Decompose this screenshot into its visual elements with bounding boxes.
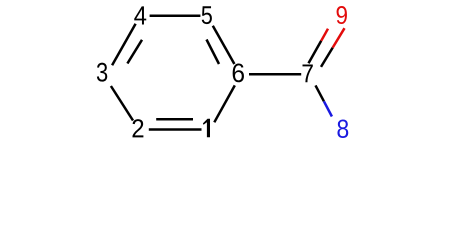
- atom label C2: [133, 119, 144, 137]
- atom label C3: [97, 63, 107, 82]
- bond C1=C2 main line: [149, 128, 202, 131]
- atom label N8: [337, 120, 348, 138]
- bond C1=C2 inner double line: [156, 118, 193, 121]
- bond C7-N8 blue half: [324, 101, 332, 116]
- atom label C1: [203, 119, 210, 138]
- bond C7=O9 right line red half: [333, 28, 345, 47]
- bond C7-N8 black half: [316, 85, 324, 101]
- bond C7=O9 left line black half: [309, 41, 322, 64]
- atom label O9: [337, 6, 347, 24]
- bond C6-C7: [249, 73, 301, 76]
- atom label C6: [233, 64, 244, 83]
- bond C5=C6 inner double line: [207, 40, 220, 65]
- bond C7=O9 left line red half: [321, 29, 328, 41]
- atom label C7: [303, 65, 313, 83]
- bond C4-C5: [150, 15, 201, 18]
- bond C7=O9 right line black half: [321, 48, 333, 67]
- atom label C5: [202, 6, 212, 24]
- bond C3=C4 inner double line: [127, 40, 142, 64]
- bond C1-C6: [214, 85, 235, 122]
- bond C3=C4 main line: [112, 24, 136, 65]
- atom label C4: [134, 6, 146, 24]
- bond C2-C3: [111, 86, 133, 121]
- bond C5=C6 main line: [213, 26, 235, 64]
